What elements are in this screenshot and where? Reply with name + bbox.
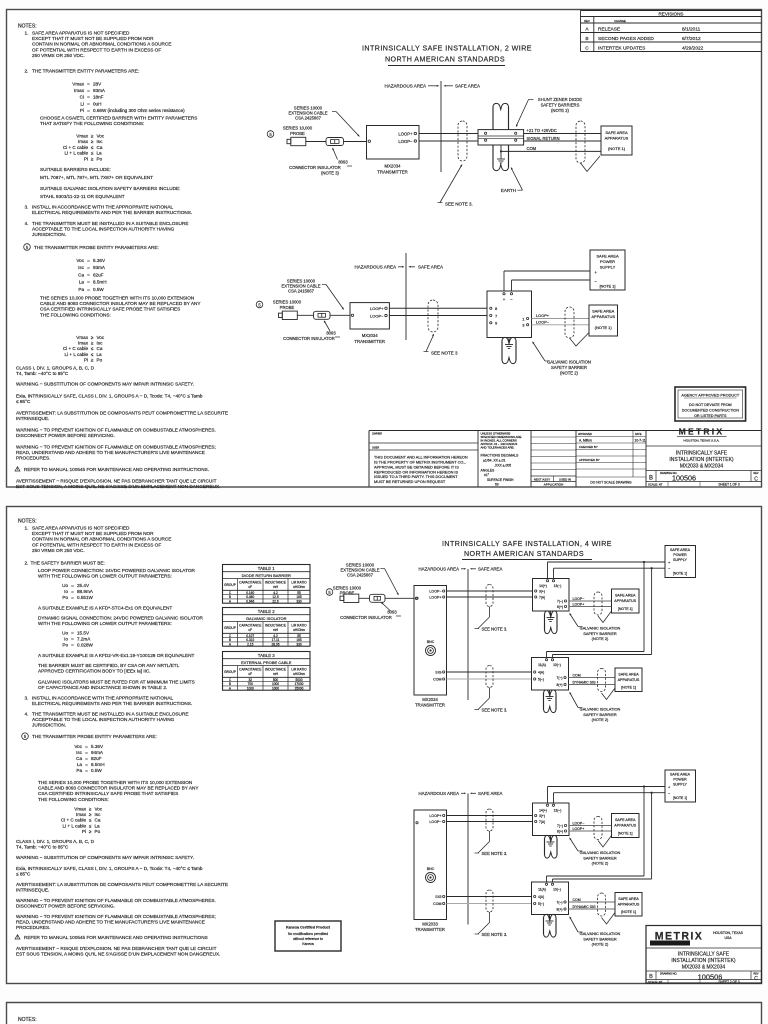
svg-text:EST SOUS TENSION, A MOINS QU'I: EST SOUS TENSION, A MOINS QU'IL NE S'AGI…: [16, 951, 220, 956]
svg-text:8(+): 8(+): [557, 605, 563, 609]
svg-text:CSA CERTIFIED INTRINSICALLY SA: CSA CERTIFIED INTRINSICALLY SAFE PROBE T…: [38, 791, 178, 796]
svg-text:La: La: [97, 151, 103, 156]
svg-text:CHECKED BY: CHECKED BY: [579, 445, 598, 449]
svg-text:11(A): 11(A): [538, 888, 546, 892]
svg-text:4.: 4.: [25, 221, 29, 226]
svg-text:7(−): 7(−): [557, 600, 563, 604]
svg-text:250 VRMS OR 250 VDC.: 250 VRMS OR 250 VDC.: [32, 548, 85, 553]
svg-text:without reference to: without reference to: [293, 937, 323, 941]
svg-text:GALVANIC ISOLATION: GALVANIC ISOLATION: [547, 360, 591, 365]
svg-text:Li + L cable: Li + L cable: [63, 823, 87, 828]
svg-text:HAZARDOUS AREA: HAZARDOUS AREA: [354, 265, 396, 270]
svg-text:METRIX: METRIX: [679, 427, 725, 437]
svg-text:Kanexa Certified Product: Kanexa Certified Product: [286, 926, 331, 930]
svg-text:PROCEDURES.: PROCEDURES.: [16, 925, 50, 930]
svg-text:DOCUMENTED CONSTRUCTION: DOCUMENTED CONSTRUCTION: [682, 408, 739, 412]
svg-text:APPROVED BY: APPROVED BY: [579, 458, 600, 462]
svg-text:INTRINSEQUE.: INTRINSEQUE.: [16, 887, 49, 892]
svg-text:SHEET 1 OF 3: SHEET 1 OF 3: [718, 483, 739, 487]
svg-text:COM: COM: [573, 674, 581, 678]
svg-text:APPARATUS: APPARATUS: [614, 823, 636, 827]
svg-text:DIODE RETURN BARRIER: DIODE RETURN BARRIER: [242, 573, 291, 578]
svg-text:MX2033 & MX2034: MX2033 & MX2034: [682, 965, 726, 971]
svg-text:CSA CERTIFIED INTRINSICALLY SA: CSA CERTIFIED INTRINSICALLY SAFE PROBE T…: [40, 307, 180, 312]
svg-text:Exia, INTRINSICALLY SAFE, CLAS: Exia, INTRINSICALLY SAFE, CLASS I, DIV. …: [16, 394, 203, 399]
svg-text:MX2033: MX2033: [422, 921, 438, 926]
svg-text:ELECTRICAL REQUIREMENTS AND PE: ELECTRICAL REQUIREMENTS AND PER THE BARR…: [32, 701, 192, 706]
svg-text:OF POTENTIAL WITH RESPECT TO E: OF POTENTIAL WITH RESPECT TO EARTH IN EX…: [32, 542, 161, 547]
svg-text:Po: Po: [62, 595, 68, 600]
svg-text:5(−): 5(−): [538, 902, 544, 906]
svg-text:SUPPLY: SUPPLY: [673, 558, 688, 562]
svg-text:GALVANIC ISOLATION: GALVANIC ISOLATION: [580, 931, 621, 936]
svg-text:THE TRANSMITTER MUST BE INSTAL: THE TRANSMITTER MUST BE INSTALLED IN A S…: [32, 712, 188, 717]
svg-text:Voc: Voc: [74, 744, 82, 749]
svg-text:L/R RATIO: L/R RATIO: [291, 581, 307, 585]
svg-text:INTRINSEQUE.: INTRINSEQUE.: [16, 416, 49, 421]
svg-text:AVERTISSEMENT: LA SUBSTITUTION: AVERTISSEMENT: LA SUBSTITUTION DE COMPOS…: [16, 882, 228, 887]
svg-text:SAFETY BARRIER: SAFETY BARRIER: [583, 936, 617, 941]
svg-text:SAFE AREA: SAFE AREA: [592, 309, 615, 314]
svg-text:22.6: 22.6: [272, 600, 278, 604]
svg-text:SAFE AREA: SAFE AREA: [670, 548, 691, 552]
svg-text:THE FOLLOWING CONDITIONS:: THE FOLLOWING CONDITIONS:: [40, 312, 111, 317]
svg-text:WARNING − TO PREVENT IGNITION: WARNING − TO PREVENT IGNITION OF FLAMMAB…: [16, 914, 216, 919]
svg-text:0.551W: 0.551W: [77, 595, 93, 600]
svg-text:=: =: [87, 265, 90, 270]
svg-text:WARNING − SUBSTITUTION OF COMP: WARNING − SUBSTITUTION OF COMPONENTS MAY…: [16, 855, 194, 860]
svg-text:94mA: 94mA: [91, 750, 104, 755]
svg-text:SAFE AREA: SAFE AREA: [418, 265, 443, 270]
svg-text:La: La: [97, 352, 103, 357]
svg-text:=: =: [87, 95, 90, 100]
svg-text:Imax: Imax: [74, 88, 85, 93]
svg-text:=: =: [85, 756, 88, 761]
svg-text:APPROVAL MUST BE OBTAINED BEFO: APPROVAL MUST BE OBTAINED BEFORE IT IS: [374, 465, 459, 469]
svg-text:IS THE PROPERTY OF METRIX INST: IS THE PROPERTY OF METRIX INSTRUMENT CO.…: [374, 461, 466, 465]
svg-text:OR LISTED PARTS: OR LISTED PARTS: [694, 414, 727, 418]
svg-text:Po: Po: [97, 156, 103, 161]
svg-text:8/1/2011: 8/1/2011: [682, 27, 701, 33]
svg-text:Li + L cable: Li + L cable: [65, 352, 89, 357]
svg-text:CONNECTOR INSULATOR: CONNECTOR INSULATOR: [340, 615, 392, 620]
svg-text:CAPACITANCE: CAPACITANCE: [239, 581, 261, 585]
svg-text:Ca: Ca: [76, 756, 82, 761]
svg-text:TRANSMITTER: TRANSMITTER: [415, 927, 445, 932]
svg-text:CONTAIN IN NORMAL OR ABNORMAL: CONTAIN IN NORMAL OR ABNORMAL CONDITIONS…: [32, 42, 171, 47]
svg-text:4(A): 4(A): [538, 671, 544, 675]
svg-text:[NOTE 1]: [NOTE 1]: [673, 572, 687, 576]
svg-text:APPROVED: APPROVED: [578, 433, 592, 436]
svg-text:READ, UNDERSTAND AND ADHERE TO: READ, UNDERSTAND AND ADHERE TO THE MANUF…: [16, 919, 205, 924]
svg-text:Imax: Imax: [78, 139, 89, 144]
svg-text:GALVANIC ISOLATORS MUST BE RAT: GALVANIC ISOLATORS MUST BE RATED FOR AT …: [38, 680, 195, 685]
svg-text:SAFETY BARRIERS: SAFETY BARRIERS: [541, 103, 580, 108]
svg-text:INSTALL IN ACCORDANCE WITH THE: INSTALL IN ACCORDANCE WITH THE APPROPRIA…: [32, 696, 174, 701]
svg-text:=: =: [71, 583, 74, 588]
svg-text:Ca: Ca: [95, 818, 101, 823]
svg-text:Isc: Isc: [76, 750, 83, 755]
svg-text:LOOP−: LOOP−: [573, 822, 585, 826]
svg-text:CONNECTOR INSULATOR: CONNECTOR INSULATOR: [283, 336, 335, 341]
svg-text:Pa: Pa: [78, 287, 84, 292]
svg-text:=: =: [87, 88, 90, 93]
svg-text:THE TRANSMITTER ENTITY PARAMET: THE TRANSMITTER ENTITY PARAMETERS ARE:: [32, 69, 139, 74]
svg-text:INDUCTANCE: INDUCTANCE: [265, 624, 286, 628]
svg-text:APPROVED CERTIFICATION BODY TO: APPROVED CERTIFICATION BODY TO [IEEx Ia]…: [38, 669, 151, 674]
svg-text:La: La: [77, 762, 83, 767]
svg-text:DYNAMIC SIG: DYNAMIC SIG: [573, 905, 596, 909]
svg-text:INSTALL IN ACCORDANCE WITH THE: INSTALL IN ACCORDANCE WITH THE APPROPRIA…: [32, 205, 174, 210]
svg-text:=: =: [85, 762, 88, 767]
svg-text:NOTES:: NOTES:: [18, 1017, 37, 1023]
svg-text:DO NOT SCALE DRAWING: DO NOT SCALE DRAWING: [590, 481, 632, 485]
svg-text:CHOOSE A CSA/ETL CERTIFIED BAR: CHOOSE A CSA/ETL CERTIFIED BARRIER WITH …: [40, 116, 197, 121]
svg-text:AVERTISSEMENT − RISQUE D'EXPLO: AVERTISSEMENT − RISQUE D'EXPLOSION. NE P…: [16, 479, 217, 484]
svg-text:8(+): 8(+): [557, 830, 563, 834]
svg-text:Po: Po: [62, 643, 68, 648]
svg-text:7(A): 7(A): [539, 596, 545, 600]
svg-text:Isc: Isc: [97, 139, 104, 144]
svg-text:LOOP−: LOOP−: [370, 313, 384, 318]
svg-text:63: 63: [495, 482, 499, 486]
svg-text:330: 330: [296, 643, 302, 647]
svg-text:(NOTE 3): (NOTE 3): [321, 171, 340, 176]
svg-text:SEE NOTE 3.: SEE NOTE 3.: [482, 851, 508, 856]
svg-text:CHANGE: CHANGE: [614, 19, 626, 23]
svg-text:Exia, INTRINSICALLY SAFE, CLAS: Exia, INTRINSICALLY SAFE, CLASS I, DIV. …: [16, 866, 203, 871]
svg-text:250 VRMS OR 250 VDC.: 250 VRMS OR 250 VDC.: [32, 53, 85, 58]
svg-text:TABLE 3: TABLE 3: [258, 653, 275, 658]
svg-text:mH: mH: [273, 585, 279, 589]
svg-text:7(−): 7(−): [557, 676, 563, 680]
svg-text:SEE NOTE 3: SEE NOTE 3: [431, 351, 458, 356]
svg-text:ACCEPTABLE TO THE LOCAL INSPEC: ACCEPTABLE TO THE LOCAL INSPECTION AUTHO…: [32, 227, 175, 232]
svg-text:7.2mA: 7.2mA: [77, 637, 91, 642]
svg-text:14(+): 14(+): [539, 584, 547, 588]
svg-text:93mA: 93mA: [93, 88, 106, 93]
svg-text:11(A): 11(A): [538, 663, 546, 667]
svg-text:Isc: Isc: [95, 812, 102, 817]
svg-text:mH: mH: [273, 672, 279, 676]
svg-text:PROBE: PROBE: [290, 131, 305, 136]
svg-text:GALVANIC ISOLATION: GALVANIC ISOLATION: [580, 850, 621, 855]
svg-text:NEXT ASSY: NEXT ASSY: [534, 477, 551, 481]
svg-text:3.: 3.: [25, 205, 29, 210]
svg-text:CSA 2425667: CSA 2425667: [347, 573, 374, 578]
svg-text:SAFE AREA: SAFE AREA: [605, 130, 628, 135]
svg-text:Pi: Pi: [82, 829, 86, 834]
svg-text:OWNER: OWNER: [372, 432, 382, 436]
svg-text:TRANSMITTER: TRANSMITTER: [354, 339, 385, 344]
svg-text:88.9mA: 88.9mA: [77, 589, 94, 594]
svg-text:CSA 2415667: CSA 2415667: [288, 289, 315, 294]
svg-text:SECOND PAGES ADDED: SECOND PAGES ADDED: [598, 36, 654, 42]
svg-text:uH/Ohm: uH/Ohm: [293, 628, 305, 632]
svg-text:APPARATUS: APPARATUS: [618, 902, 640, 906]
svg-text:8(+): 8(+): [557, 683, 563, 687]
svg-text:uH/Ohm: uH/Ohm: [293, 672, 305, 676]
svg-text:!: !: [17, 467, 18, 471]
svg-text:EXCEPT THAT IT MUST NOT BE SUP: EXCEPT THAT IT MUST NOT BE SUPPLIED FROM…: [32, 36, 154, 41]
svg-text:CAPACITANCE: CAPACITANCE: [239, 624, 261, 628]
svg-text:AND TOLERANCES ARE:: AND TOLERANCES ARE:: [481, 446, 515, 450]
svg-text:WARNING − SUBSTITUTION OF COMP: WARNING − SUBSTITUTION OF COMPONENTS MAY…: [16, 382, 194, 387]
svg-text:GROUP: GROUP: [224, 583, 236, 587]
svg-text:±1/64 .XX ±.01: ±1/64 .XX ±.01: [483, 459, 505, 463]
svg-text:EXTERNAL PROBE CABLE: EXTERNAL PROBE CABLE: [241, 660, 292, 665]
svg-text:SERIES 10000: SERIES 10000: [273, 300, 302, 305]
svg-text:La: La: [79, 280, 85, 285]
svg-text:OF CAPACITANCE AND INDUCTANCE: OF CAPACITANCE AND INDUCTANCE SHOWN IN T…: [38, 685, 167, 690]
svg-text:HAZARDOUS AREA: HAZARDOUS AREA: [419, 567, 460, 572]
svg-text:4(A): 4(A): [538, 895, 544, 899]
svg-text:L/R RATIO: L/R RATIO: [291, 624, 307, 628]
svg-text:LOOP+: LOOP+: [536, 313, 550, 318]
svg-text:THIS DOCUMENT AND ALL INFORMAT: THIS DOCUMENT AND ALL INFORMATION HEREON: [374, 456, 468, 460]
svg-text:BNC: BNC: [427, 867, 435, 871]
svg-text:WITH THE FOLLOWING OR LOWER OU: WITH THE FOLLOWING OR LOWER OUTPUT PARAM…: [38, 621, 172, 626]
svg-text:2.: 2.: [25, 69, 29, 74]
svg-text:WITH THE FOLLOWING OR LOWER OU: WITH THE FOLLOWING OR LOWER OUTPUT PARAM…: [38, 574, 172, 579]
svg-text:28V: 28V: [93, 82, 102, 87]
svg-text:SERIES 10,000: SERIES 10,000: [283, 126, 313, 131]
svg-text:CONNECTOR INSULATOR: CONNECTOR INSULATOR: [289, 165, 341, 170]
svg-text:REFER TO MANUAL 100545 FOR MAI: REFER TO MANUAL 100545 FOR MAINTENANCE A…: [24, 935, 208, 940]
svg-text:COM: COM: [433, 902, 441, 906]
svg-text:1.: 1.: [25, 526, 29, 531]
svg-text:DISCONNECT POWER BEFORE SERVIC: DISCONNECT POWER BEFORE SERVICING.: [16, 903, 115, 908]
svg-text:A. Milton: A. Milton: [579, 439, 592, 443]
svg-text:±1°: ±1°: [484, 473, 490, 477]
svg-text:4/29/2022: 4/29/2022: [682, 46, 704, 52]
svg-text:62uF: 62uF: [93, 272, 104, 277]
svg-text:Voc: Voc: [97, 134, 105, 139]
svg-text:SAFE AREA APPARATUS IS NOT SPE: SAFE AREA APPARATUS IS NOT SPECIFIED: [32, 31, 130, 36]
svg-text:No modifications permitted: No modifications permitted: [288, 932, 328, 936]
svg-text:MTL 7087+, MTL 787+, MTL 7X87: MTL 7087+, MTL 787+, MTL 7X87+ OR EQUIVA…: [40, 175, 153, 180]
svg-text:330: 330: [296, 600, 302, 604]
svg-text:Uo: Uo: [62, 583, 68, 588]
svg-text:THE TRANSMITTER PROBE ENTITY P: THE TRANSMITTER PROBE ENTITY PARAMETERS …: [32, 734, 157, 739]
svg-text:CLASS I, DIV. 1, GROUPS A, B,: CLASS I, DIV. 1, GROUPS A, B, C, D: [16, 366, 95, 371]
svg-text:INDUCTANCE: INDUCTANCE: [265, 581, 286, 585]
svg-text:TABLE 2: TABLE 2: [258, 609, 275, 614]
svg-text:DO NOT DEVIATE FROM: DO NOT DEVIATE FROM: [689, 403, 732, 407]
svg-text:LOOP+: LOOP+: [398, 131, 413, 136]
svg-text:ACCEPTABLE TO THE LOCAL INSPEC: ACCEPTABLE TO THE LOCAL INSPECTION AUTHO…: [32, 717, 175, 722]
svg-text:Pi: Pi: [84, 357, 88, 362]
svg-text:TABLE 1: TABLE 1: [258, 566, 275, 571]
svg-text:SUPPLY: SUPPLY: [673, 782, 688, 786]
svg-text:CABLE AND 8093 CONNECTOR INSUL: CABLE AND 8093 CONNECTOR INSULATOR MAY B…: [38, 786, 199, 791]
svg-text:5.36V: 5.36V: [91, 744, 104, 749]
svg-text:SHUNT ZENER DIODE: SHUNT ZENER DIODE: [538, 97, 582, 102]
svg-text:uF: uF: [248, 672, 252, 676]
svg-text:3(+): 3(+): [539, 590, 545, 594]
svg-text:[NOTE 1]: [NOTE 1]: [618, 607, 633, 611]
svg-text:Ci: Ci: [80, 95, 84, 100]
svg-text:SUITABLE BARRIERS INCLUDE:: SUITABLE BARRIERS INCLUDE:: [40, 167, 111, 172]
svg-text:Ci + C cable: Ci + C cable: [63, 346, 89, 351]
svg-text:14(+): 14(+): [539, 809, 547, 813]
svg-text:=: =: [85, 750, 88, 755]
svg-text:USER: USER: [372, 446, 379, 450]
svg-text:Ca: Ca: [78, 272, 84, 277]
svg-text:WARNING − TO PREVENT IGNITION: WARNING − TO PREVENT IGNITION OF FLAMMAB…: [16, 898, 216, 903]
svg-text:THAT SATISFY THE FOLLOWING CON: THAT SATISFY THE FOLLOWING CONDITIONS:: [40, 121, 144, 126]
svg-text:COM: COM: [433, 678, 441, 682]
svg-text:Vmax: Vmax: [72, 82, 84, 87]
svg-text:28.06: 28.06: [272, 643, 280, 647]
svg-text:(NOTE 2): (NOTE 2): [592, 717, 609, 722]
svg-text:SEE NOTE 3.: SEE NOTE 3.: [482, 932, 508, 937]
svg-text:APPARATUS: APPARATUS: [591, 314, 615, 319]
svg-text:Io: Io: [64, 637, 68, 642]
svg-text:=: =: [71, 643, 74, 648]
svg-text:+21 TO +26VDC: +21 TO +26VDC: [527, 128, 557, 133]
svg-text:INSTALLATION (INTERTEK): INSTALLATION (INTERTEK): [669, 457, 734, 463]
svg-text:CSA 2425667: CSA 2425667: [295, 116, 322, 121]
svg-text:THE TRANSMITTER MUST BE INSTAL: THE TRANSMITTER MUST BE INSTALLED IN A S…: [32, 221, 188, 226]
svg-text:APPLICATION: APPLICATION: [544, 483, 564, 487]
svg-text:mH: mH: [273, 628, 279, 632]
svg-text:[NOTE 1]: [NOTE 1]: [618, 832, 633, 836]
svg-text:LOOP+: LOOP+: [429, 596, 441, 600]
svg-text:[NOTE 1]: [NOTE 1]: [621, 686, 636, 690]
svg-text:CONTAIN IN NORMAL OR ABNORMAL: CONTAIN IN NORMAL OR ABNORMAL CONDITIONS…: [32, 537, 171, 542]
svg-text:A SUITABLE EXAMPLE IS A KFD*-S: A SUITABLE EXAMPLE IS A KFD*-STC4-Ex1 OR…: [38, 606, 172, 611]
svg-text:THE SAFETY BARRIER MUST BE:: THE SAFETY BARRIER MUST BE:: [31, 561, 105, 566]
svg-text:POWER: POWER: [600, 259, 615, 264]
svg-text:POWER: POWER: [673, 553, 687, 557]
svg-text:0.66W (including 300 Ohm serie: 0.66W (including 300 Ohm series resistan…: [93, 108, 185, 113]
svg-text:SAFE AREA: SAFE AREA: [615, 818, 636, 822]
svg-text:=: =: [71, 595, 74, 600]
svg-text:LOOP−: LOOP−: [429, 820, 441, 824]
svg-text:AGENCY APPROVED PRODUCT: AGENCY APPROVED PRODUCT: [681, 394, 739, 398]
svg-text:EST SOUS TENSION, A MOINS QU'I: EST SOUS TENSION, A MOINS QU'IL NE S'AGI…: [16, 484, 220, 489]
svg-text:INTRINSICALLY SAFE INSTALLAT: INTRINSICALLY SAFE INSTALLATION, 2 WIRE: [362, 45, 532, 53]
svg-text:Imax: Imax: [78, 341, 89, 346]
svg-text:INTRINSICALLY SAFE: INTRINSICALLY SAFE: [678, 952, 730, 958]
svg-text:Li + L cable: Li + L cable: [65, 151, 89, 156]
svg-text:Kanexa: Kanexa: [302, 942, 314, 946]
svg-text:SAFETY BARRIER: SAFETY BARRIER: [551, 365, 587, 370]
svg-text:8093: 8093: [326, 331, 336, 336]
svg-text:13(−): 13(−): [554, 809, 562, 813]
svg-text:SCALE: NT: SCALE: NT: [648, 980, 663, 984]
svg-text:SAFETY BARRIER: SAFETY BARRIER: [583, 631, 617, 636]
svg-text:uF: uF: [248, 628, 252, 632]
svg-text:LOOP POWER CONNECTION: 24VDC P: LOOP POWER CONNECTION: 24VDC POWERED GAL…: [38, 568, 196, 573]
svg-text:TRANSMITTER: TRANSMITTER: [415, 703, 445, 708]
svg-text:0.5W: 0.5W: [93, 287, 104, 292]
svg-text:Pa: Pa: [76, 768, 82, 773]
svg-text:SAFE AREA APPARATUS IS NOT SPE: SAFE AREA APPARATUS IS NOT SPECIFIED: [32, 526, 130, 531]
svg-text:NOTES:: NOTES:: [18, 519, 37, 525]
svg-text:Ci + C cable: Ci + C cable: [63, 145, 89, 150]
svg-text:SAFETY BARRIER: SAFETY BARRIER: [583, 712, 617, 717]
svg-text:CABLE AND 8093 CONNECTOR INSUL: CABLE AND 8093 CONNECTOR INSULATOR MAY B…: [40, 301, 201, 306]
svg-text:Isc: Isc: [97, 341, 104, 346]
svg-text:MX2034: MX2034: [384, 164, 401, 169]
svg-text:=: =: [85, 744, 88, 749]
svg-text:STAHL 9303/11-22-11 OR EQUIVAL: STAHL 9303/11-22-11 OR EQUIVALENT: [40, 194, 125, 199]
svg-text:DATE: DATE: [635, 433, 642, 436]
svg-text:JURISDICTION.: JURISDICTION.: [32, 232, 66, 237]
svg-text:INTRINSICALLY SAFE: INTRINSICALLY SAFE: [676, 451, 728, 457]
svg-text:THE SERIES 10,000 PROBE TOGETH: THE SERIES 10,000 PROBE TOGETHER WITH IT…: [38, 780, 192, 785]
svg-text:NOTES:: NOTES:: [18, 24, 37, 30]
svg-text:MX2033 & MX2034: MX2033 & MX2034: [680, 464, 724, 470]
svg-text:7(A): 7(A): [539, 820, 545, 824]
svg-text:=: =: [87, 108, 90, 113]
svg-text:REVISIONS: REVISIONS: [658, 11, 683, 16]
svg-text:NORTH AMERICAN STANDARDS: NORTH AMERICAN STANDARDS: [464, 550, 584, 558]
svg-text:REFER TO MANUAL 100545 FOR MAI: REFER TO MANUAL 100545 FOR MAINTENANCE A…: [24, 467, 209, 472]
svg-text:OF POTENTIAL WITH RESPECT TO E: OF POTENTIAL WITH RESPECT TO EARTH IN EX…: [32, 47, 161, 52]
svg-text:APPARATUS: APPARATUS: [614, 599, 636, 603]
svg-text:0.028W: 0.028W: [77, 643, 93, 648]
svg-text:INTERTEK UPDATES: INTERTEK UPDATES: [598, 46, 645, 52]
svg-text:=: =: [85, 768, 88, 773]
svg-text:6/7/2012: 6/7/2012: [682, 36, 701, 42]
svg-text:Pi: Pi: [84, 156, 88, 161]
svg-text:NORTH AMERICAN STANDARDS: NORTH AMERICAN STANDARDS: [385, 56, 505, 64]
svg-text:Isc: Isc: [78, 265, 85, 270]
svg-text:DRAWING NO.: DRAWING NO.: [660, 973, 677, 976]
svg-text:≤ 85°C: ≤ 85°C: [16, 399, 31, 404]
svg-text:=: =: [87, 101, 90, 106]
svg-text:LOOP−: LOOP−: [429, 590, 441, 594]
svg-text:SCALE: NT: SCALE: NT: [648, 483, 663, 487]
svg-text:WARNING − TO PREVENT IGNITION: WARNING − TO PREVENT IGNITION OF FLAMMAB…: [16, 428, 216, 433]
svg-text:B: B: [585, 36, 588, 42]
svg-text:2.15: 2.15: [247, 643, 253, 647]
svg-text:La: La: [95, 823, 101, 828]
svg-text:!: !: [17, 935, 18, 939]
svg-text:Voc: Voc: [95, 807, 103, 812]
svg-text:JURISDICTION.: JURISDICTION.: [32, 723, 66, 728]
svg-text:Vmax: Vmax: [74, 807, 86, 812]
svg-text:[NOTE 1]: [NOTE 1]: [621, 910, 636, 914]
svg-text:=: =: [87, 280, 90, 285]
svg-text:Io: Io: [64, 589, 68, 594]
svg-text:SAFETY BARRIER: SAFETY BARRIER: [583, 855, 617, 860]
svg-text:Vmax: Vmax: [76, 335, 88, 340]
svg-text:PROCEDURES.: PROCEDURES.: [16, 455, 50, 460]
svg-text:EARTH: EARTH: [501, 188, 516, 193]
svg-text:CAPACITANCE: CAPACITANCE: [239, 668, 261, 672]
svg-text:SAFE AREA: SAFE AREA: [478, 567, 502, 572]
svg-text:8093: 8093: [387, 610, 397, 615]
svg-text:Ca: Ca: [97, 346, 103, 351]
svg-text:SEE NOTE 3.: SEE NOTE 3.: [482, 627, 508, 632]
svg-text:93mA: 93mA: [93, 265, 106, 270]
svg-text:INDUCTANCE: INDUCTANCE: [265, 668, 286, 672]
svg-text:(NOTE 2): (NOTE 2): [560, 371, 579, 376]
svg-text:C: C: [585, 46, 589, 52]
svg-text:100506: 100506: [672, 473, 696, 482]
svg-text:(NOTE 2): (NOTE 2): [592, 636, 609, 641]
svg-text:(NOTE 1): (NOTE 1): [608, 146, 626, 151]
svg-text:DISCONNECT POWER BEFORE SERVIC: DISCONNECT POWER BEFORE SERVICING.: [16, 433, 115, 438]
svg-text:[NOTE 1]: [NOTE 1]: [600, 285, 616, 289]
svg-text:LOOP−: LOOP−: [398, 139, 413, 144]
svg-text:WARNING − TO PREVENT IGNITION: WARNING − TO PREVENT IGNITION OF FLAMMAB…: [16, 445, 216, 450]
svg-text:MX2034: MX2034: [362, 333, 379, 338]
